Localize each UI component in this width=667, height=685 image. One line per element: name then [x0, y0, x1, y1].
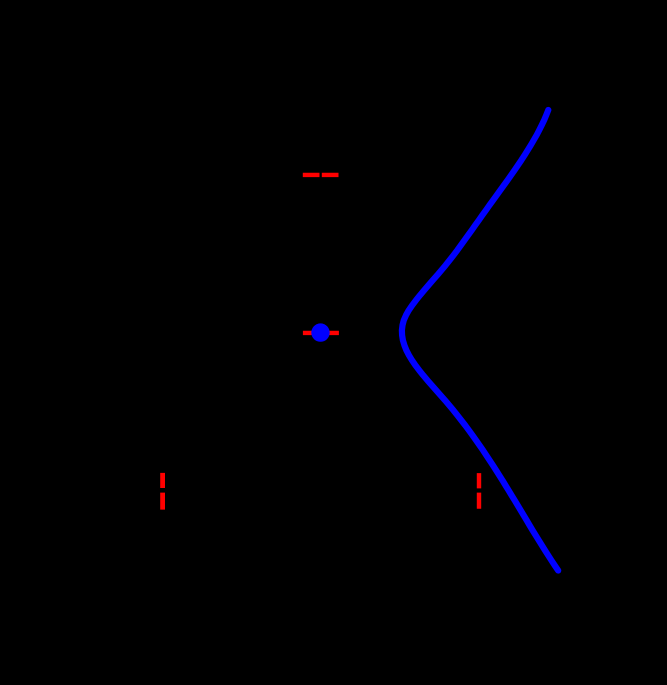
tick dash: right vertical red dashed segment	[477, 473, 481, 509]
tick dash: middle horizontal red dashed segment through point	[303, 331, 339, 335]
tick dash: left vertical red dashed segment	[160, 473, 165, 510]
tick dash: top horizontal red dashed segment	[303, 173, 339, 177]
point: blue marker dot	[311, 323, 329, 341]
curve: blue function graph	[402, 110, 558, 571]
